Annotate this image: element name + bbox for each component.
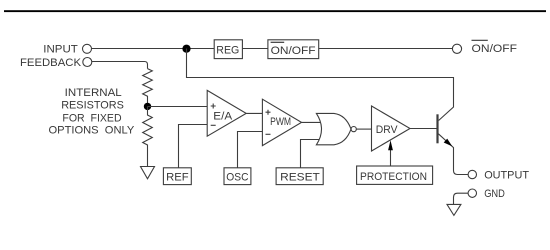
overline ON in block	[271, 41, 285, 43]
pin + of PWM	[266, 110, 271, 115]
svg-text:RESISTORS: RESISTORS	[61, 100, 124, 112]
wire GND terminal to ground	[454, 193, 469, 204]
terminal OUTPUT circle	[468, 170, 476, 178]
svg-text:INTERNAL: INTERNAL	[65, 87, 122, 99]
wire INPUT to REG	[92, 48, 215, 50]
overline ON terminal label	[472, 39, 488, 41]
top border rule	[4, 10, 546, 12]
wire REF to E/A - input	[179, 125, 208, 168]
svg-text:OPTIONS ONLY: OPTIONS ONLY	[49, 124, 135, 136]
svg-text:ON/OFF: ON/OFF	[472, 43, 518, 55]
wire OSC to PWM - input	[238, 132, 263, 168]
svg-text:REF: REF	[166, 171, 189, 183]
svg-text:GND: GND	[484, 188, 505, 200]
resistor R2 (lower internal resistor)	[143, 106, 153, 166]
wire FEEDBACK to resistor	[92, 62, 148, 69]
pin - of E/A	[211, 124, 216, 126]
transistor Q1 base bar	[436, 114, 438, 143]
wire ON/OFF block to terminal	[319, 48, 453, 50]
wire E/A output to PWM + input	[246, 112, 262, 114]
svg-text:E/A: E/A	[213, 110, 232, 122]
node feedback divider junction	[144, 103, 151, 110]
block PROTECTION	[357, 166, 433, 184]
block ON/OFF	[268, 40, 319, 59]
gate NOR	[316, 113, 351, 144]
svg-text:REG: REG	[216, 44, 239, 56]
resistor R1 (upper internal resistor)	[143, 69, 153, 107]
block REF	[163, 168, 191, 185]
wire junction to E/A + input	[148, 106, 208, 108]
block RESET	[276, 168, 323, 185]
op-amp E/A error amplifier	[207, 90, 246, 136]
terminal ON/OFF circle	[452, 44, 461, 53]
svg-text:FOR FIXED: FOR FIXED	[62, 112, 121, 124]
wire PROTECTION arrow shaft	[390, 150, 392, 166]
ground (below R2)	[141, 167, 155, 179]
svg-text:RESET: RESET	[280, 171, 320, 183]
svg-text:DRV: DRV	[376, 124, 398, 136]
ground (GND terminal)	[447, 204, 461, 215]
block OSC	[224, 168, 251, 185]
terminal GND circle	[468, 189, 476, 197]
wire PWM output to gate input	[302, 121, 323, 123]
svg-text:FEEDBACK: FEEDBACK	[20, 57, 82, 69]
comparator PWM	[262, 99, 301, 145]
amplifier DRV driver	[372, 106, 411, 151]
wire REG to ON/OFF block	[242, 48, 268, 50]
wire gate output to DRV	[356, 128, 371, 130]
gate NOR output bubble	[351, 127, 356, 132]
svg-text:OUTPUT: OUTPUT	[484, 170, 529, 182]
arrowhead PROTECTION to DRV	[388, 140, 393, 150]
transistor Q1 emitter	[438, 134, 468, 175]
svg-text:PWM: PWM	[270, 116, 291, 128]
block REG	[214, 40, 242, 59]
svg-text:PROTECTION: PROTECTION	[360, 171, 427, 183]
wire junction down and across to transistor collector	[187, 49, 454, 121]
pin - of PWM	[266, 133, 271, 135]
svg-text:ON/OFF: ON/OFF	[271, 45, 316, 57]
svg-text:INPUT: INPUT	[43, 44, 78, 56]
svg-text:OSC: OSC	[226, 171, 248, 183]
wire DRV output to transistor base	[410, 128, 437, 130]
terminal INPUT circle	[83, 44, 92, 53]
pin + of E/A	[211, 104, 216, 109]
terminal FEEDBACK circle	[83, 58, 92, 67]
wire RESET to gate lower input	[301, 140, 322, 168]
transistor Q1 emitter arrowhead	[444, 139, 453, 147]
node junction on input line	[182, 45, 190, 53]
